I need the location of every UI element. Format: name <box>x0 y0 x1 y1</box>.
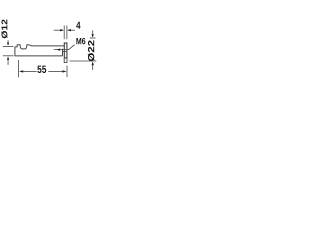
dimension O22: top extension tick <box>90 37 96 39</box>
mounting plate Ø22 (edge view) <box>64 43 67 58</box>
dimension O22: top arrow <box>92 30 94 37</box>
label M6 <box>76 38 85 44</box>
dimension 4: right arrow <box>67 29 75 31</box>
label 4 <box>76 22 80 29</box>
M6 stud thread line through plate <box>63 50 67 52</box>
dimension O22: bottom arrow <box>92 62 94 71</box>
dimension O12: bottom arrow <box>7 56 9 65</box>
dimension 55: right extension line <box>66 66 68 78</box>
dimension O22: bottom extension line <box>70 60 97 62</box>
label 55 <box>37 66 46 73</box>
dimension O12: bottom extension line <box>3 55 14 57</box>
M6 leader line <box>54 45 75 50</box>
hub below plate <box>64 58 67 62</box>
dimension O12: top arrow <box>7 40 9 46</box>
label O12 <box>1 20 7 39</box>
hook profile outline <box>15 45 64 56</box>
dimension 4: left arrow <box>54 29 64 31</box>
dimension 55: left arrow <box>19 70 37 72</box>
M6 leader arrowhead <box>56 49 60 51</box>
dimension O12: top extension line <box>3 46 14 48</box>
rod end face (thread end) <box>62 49 64 56</box>
dimension 4: extension lines <box>64 26 67 40</box>
dimension 55: left extension line <box>18 60 20 77</box>
dimension 55: right arrow <box>48 70 66 72</box>
label O22 <box>88 40 95 61</box>
